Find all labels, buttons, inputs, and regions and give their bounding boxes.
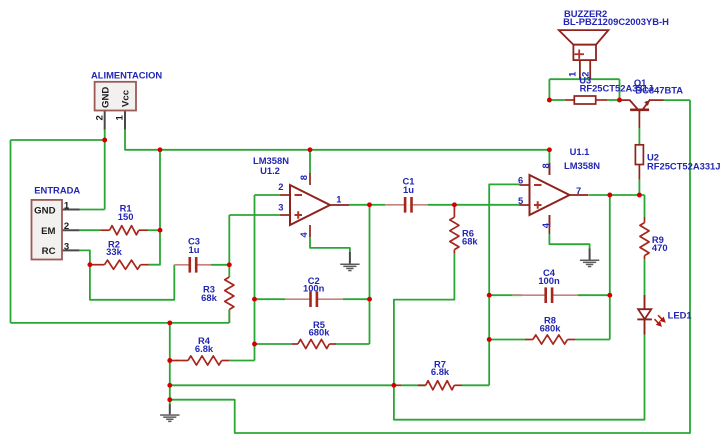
- svg-text:680k: 680k: [540, 323, 562, 334]
- svg-text:LED1: LED1: [668, 309, 692, 320]
- svg-text:150: 150: [118, 211, 134, 222]
- svg-text:EM: EM: [41, 226, 55, 237]
- svg-text:68k: 68k: [462, 236, 478, 247]
- svg-text:470: 470: [652, 242, 668, 253]
- svg-text:1: 1: [566, 72, 577, 77]
- svg-text:2: 2: [64, 221, 69, 232]
- svg-text:8: 8: [540, 163, 551, 168]
- svg-text:100n: 100n: [303, 283, 325, 294]
- svg-text:100n: 100n: [538, 275, 560, 286]
- svg-text:1: 1: [336, 193, 341, 204]
- svg-text:ALIMENTACION: ALIMENTACION: [91, 70, 162, 81]
- svg-text:BC847BTA: BC847BTA: [635, 84, 683, 95]
- svg-text:6.8k: 6.8k: [431, 366, 450, 377]
- svg-text:Vcc: Vcc: [121, 89, 132, 107]
- svg-text:2: 2: [278, 181, 283, 192]
- svg-text:U1.1: U1.1: [570, 146, 590, 157]
- svg-text:33k: 33k: [106, 246, 122, 257]
- svg-text:3: 3: [64, 241, 69, 252]
- svg-text:1: 1: [64, 201, 70, 212]
- svg-text:6: 6: [518, 175, 523, 186]
- svg-text:2: 2: [580, 72, 591, 77]
- svg-text:4: 4: [298, 232, 309, 238]
- svg-text:680k: 680k: [309, 327, 331, 338]
- svg-text:4: 4: [540, 222, 551, 228]
- svg-text:1u: 1u: [189, 244, 200, 255]
- svg-text:3: 3: [278, 202, 283, 213]
- svg-text:BL-PBZ1209C2003YB-H: BL-PBZ1209C2003YB-H: [563, 16, 669, 27]
- svg-text:ENTRADA: ENTRADA: [34, 185, 80, 196]
- svg-text:1: 1: [115, 114, 126, 120]
- svg-text:LM358N: LM358N: [564, 160, 600, 171]
- svg-text:1u: 1u: [403, 184, 414, 195]
- svg-text:7: 7: [576, 185, 581, 196]
- svg-text:5: 5: [518, 195, 523, 206]
- svg-text:GND: GND: [34, 205, 55, 216]
- svg-text:RF25CT52A331J: RF25CT52A331J: [647, 160, 720, 171]
- svg-text:2: 2: [94, 115, 105, 120]
- svg-text:68k: 68k: [201, 292, 217, 303]
- svg-text:6.8k: 6.8k: [195, 343, 214, 354]
- svg-text:8: 8: [298, 175, 309, 180]
- svg-text:RC: RC: [42, 246, 56, 257]
- svg-text:U1.2: U1.2: [260, 165, 280, 176]
- svg-text:GND: GND: [100, 87, 111, 108]
